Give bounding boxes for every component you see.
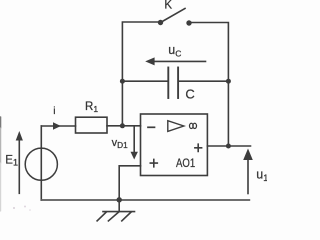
- svg-text:K: K: [164, 0, 172, 12]
- svg-text:C: C: [185, 86, 194, 101]
- svg-text:AO1: AO1: [176, 156, 195, 170]
- svg-text:i: i: [53, 105, 55, 117]
